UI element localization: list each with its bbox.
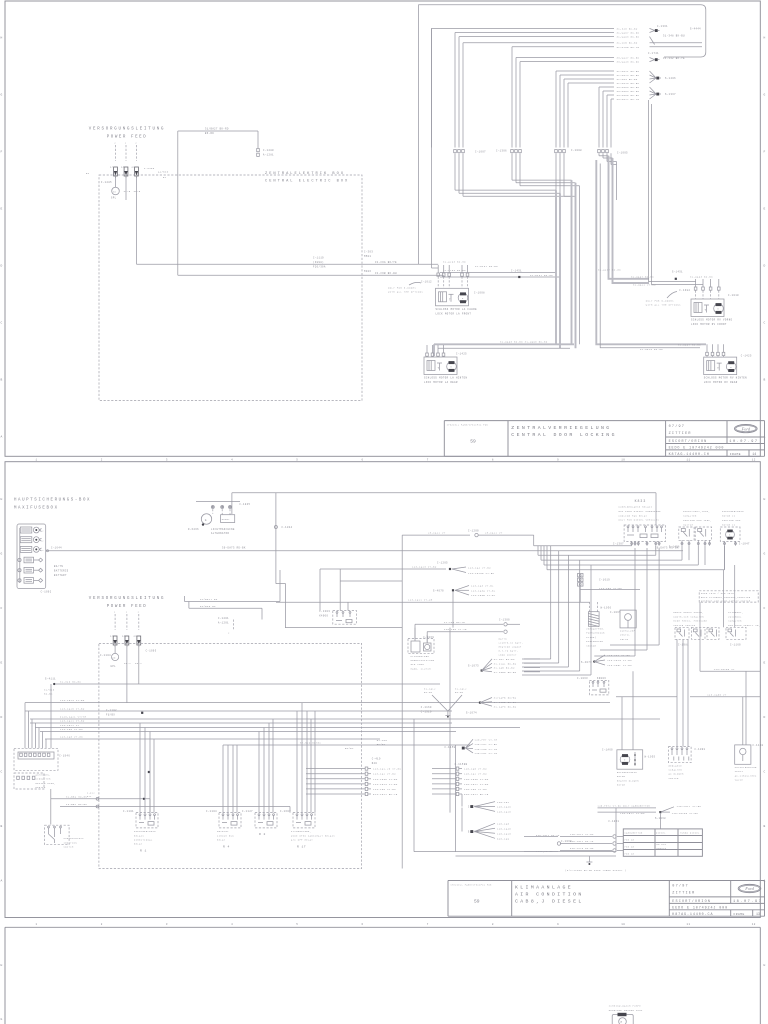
- svg-text:R40: R40: [372, 762, 378, 765]
- svg-text:PER KM: PER KM: [625, 839, 635, 842]
- svg-text:HEADLAMP WASHER PUMP: HEADLAMP WASHER PUMP: [609, 1009, 643, 1012]
- svg-text:E: E: [764, 662, 766, 665]
- svg-text:140-CA12 VT-BU: 140-CA12 VT-BU: [464, 783, 489, 786]
- svg-text:KUEHLGEBLAESE: KUEHLGEBLAESE: [134, 830, 156, 833]
- svg-text:MOTOR II: MOTOR II: [722, 515, 736, 518]
- svg-text:C-1644: C-1644: [51, 547, 62, 550]
- svg-text:31-WA67 BK-GN: 31-WA67 BK-GN: [617, 32, 640, 35]
- svg-text:BK-BU: BK-BU: [424, 691, 433, 694]
- svg-text:31-CAF8 BK-BU: 31-CAF8 BK-BU: [494, 705, 517, 708]
- svg-text:Ford: Ford: [744, 886, 754, 891]
- svg-text:9: 9: [557, 458, 559, 461]
- svg-text:8: 8: [492, 458, 494, 461]
- svg-text:31-W160 BK-YE: 31-W160 BK-YE: [617, 46, 640, 49]
- svg-text:H: H: [764, 498, 766, 501]
- svg-text:31-WA97 BK-BN: 31-WA97 BK-BN: [678, 344, 701, 347]
- svg-text:2: 2: [135, 142, 137, 145]
- svg-text:R 1: R 1: [140, 850, 147, 853]
- svg-text:S-1367: S-1367: [665, 93, 676, 96]
- svg-text:C-1306: C-1306: [496, 150, 507, 153]
- svg-text:C-1946: C-1946: [59, 755, 70, 758]
- svg-text:WITH ALL THE OPTIONS: WITH ALL THE OPTIONS: [646, 304, 681, 307]
- svg-text:C-1451: C-1451: [511, 270, 522, 273]
- svg-text:33-WA63 BK-BN: 33-WA63 BK-BN: [617, 86, 640, 89]
- svg-text:ONLY FOR 5-DOORS: ONLY FOR 5-DOORS: [646, 300, 674, 303]
- svg-text:F: F: [764, 151, 766, 154]
- svg-text:31-A437 BK-GN: 31-A437 BK-GN: [530, 274, 553, 277]
- svg-text:M,T,TN BATT,: M,T,TN BATT,: [499, 650, 519, 653]
- svg-text:18.07.97: 18.07.97: [733, 900, 762, 904]
- svg-text:143-CA2 VT-BU: 143-CA2 VT-BU: [373, 773, 396, 776]
- svg-text:C-1160: C-1160: [753, 744, 764, 747]
- svg-text:DIESEL: DIESEL: [656, 832, 666, 835]
- svg-text:SCHLOSS MOTOR RV VORNE: SCHLOSS MOTOR RV VORNE: [691, 319, 733, 322]
- svg-text:ZUSCHODL: ZUSCHODL: [728, 615, 742, 618]
- svg-text:2: 2: [42, 530, 44, 533]
- svg-text:M: M: [717, 308, 719, 311]
- svg-text:31-342 BK-YE: 31-342 BK-YE: [663, 57, 685, 60]
- svg-text:140-CA2 VT-BU: 140-CA2 VT-BU: [464, 773, 487, 776]
- svg-text:MOTOR: MOTOR: [617, 775, 626, 778]
- svg-text:31/348: 31/348: [44, 689, 55, 692]
- svg-text:K9006: K9006: [597, 677, 606, 680]
- svg-text:SCHLOSS MOTOR LA HINTEN: SCHLOSS MOTOR LA HINTEN: [424, 377, 467, 380]
- svg-text:BA/TN: BA/TN: [54, 565, 63, 568]
- svg-text:RELAIS: RELAIS: [134, 834, 144, 837]
- svg-text:SWITCH: SWITCH: [64, 846, 74, 849]
- svg-text:C-419: C-419: [372, 758, 381, 761]
- svg-text:C-1065: C-1065: [610, 611, 621, 614]
- svg-text:DIRECTIONAL: DIRECTIONAL: [134, 839, 153, 842]
- svg-text:H: H: [764, 37, 766, 40]
- svg-text:T: T: [705, 309, 707, 312]
- svg-text:140-CA106 VT-BU: 140-CA106 VT-BU: [672, 812, 699, 815]
- svg-text:POWER FEED: POWER FEED: [107, 605, 148, 609]
- svg-text:BK/BX: BK/BX: [377, 743, 386, 746]
- svg-text:G: G: [764, 553, 766, 556]
- svg-text:30-2: 30-2: [124, 662, 131, 665]
- svg-text:F: F: [764, 607, 766, 610]
- svg-text:R 2: R 2: [259, 833, 266, 836]
- svg-text:2: 2: [138, 611, 140, 614]
- svg-text:33-WA27 BK-YE: 33-WA27 BK-YE: [617, 98, 640, 101]
- svg-text:SCHLOSS MOTOR RV HINTEN: SCHLOSS MOTOR RV HINTEN: [704, 377, 747, 380]
- svg-text:2: 2: [101, 923, 103, 926]
- svg-text:BK-BU: BK-BU: [455, 691, 464, 694]
- svg-text:KONTR,SCH SCHALTER: KONTR,SCH SCHALTER: [673, 615, 704, 618]
- svg-text:140-CA7 VT-BU: 140-CA7 VT-BU: [475, 743, 498, 746]
- svg-text:VENTIL: VENTIL: [620, 634, 630, 637]
- svg-text:143-CA7A VT-BU: 143-CA7A VT-BU: [607, 659, 632, 662]
- svg-text:2: 2: [125, 142, 127, 145]
- svg-text:140-CA5 VT-YE: 140-CA5 VT-YE: [475, 748, 498, 751]
- svg-text:KLIMAANL,: KLIMAANL,: [728, 611, 743, 614]
- svg-text:D-6266: D-6266: [188, 528, 199, 531]
- svg-text:MOTOR: MOTOR: [617, 784, 626, 787]
- svg-text:C-1981: C-1981: [678, 644, 689, 647]
- svg-text:143-CA3A VT-BL: 143-CA3A VT-BL: [471, 589, 496, 592]
- svg-text:MAGNETKUPPLUNG: MAGNETKUPPLUNG: [411, 659, 435, 662]
- svg-text:31-CKB BK-WH: 31-CKB BK-WH: [375, 272, 397, 275]
- svg-text:PER KM: PER KM: [625, 853, 635, 856]
- svg-text:SPEZIELL FAHR/SPECIFIC FOR: SPEZIELL FAHR/SPECIFIC FOR: [451, 883, 493, 886]
- svg-text:VERSORGUNGSLEITUNG: VERSORGUNGSLEITUNG: [89, 128, 166, 132]
- svg-text:KLIMA): KLIMA): [586, 636, 596, 639]
- svg-text:Ford: Ford: [740, 426, 750, 431]
- svg-text:A8: A8: [122, 635, 126, 638]
- svg-text:C-1051: C-1051: [608, 820, 619, 823]
- svg-text:5: 5: [296, 923, 298, 926]
- svg-text:33-WA47 BK-BN: 33-WA47 BK-BN: [617, 57, 640, 60]
- svg-text:59: 59: [470, 439, 476, 445]
- svg-text:CARBURETTOR: CARBURETTOR: [625, 832, 644, 835]
- svg-text:AUX FUER DIESEL FAHRZEUGE: AUX FUER DIESEL FAHRZEUGE: [619, 510, 662, 513]
- svg-text:31-C1AL BK-BU: 31-C1AL BK-BU: [494, 662, 517, 665]
- svg-text:HIGH PRESS, PRESSURE: HIGH PRESS, PRESSURE: [673, 620, 707, 623]
- svg-text:EEDO E 1074924J 000: EEDO E 1074924J 000: [672, 906, 728, 910]
- svg-text:UMLUFTREGLUNG: UMLUFTREGLUNG: [735, 766, 757, 769]
- svg-text:S-4444: S-4444: [690, 28, 701, 31]
- svg-text:12: 12: [752, 923, 756, 926]
- svg-text:SCHALTER: SCHALTER: [669, 769, 683, 772]
- svg-text:FUER 16TA / FOR 16TA: FUER 16TA / FOR 16TA: [701, 592, 734, 595]
- svg-text:B2: B2: [163, 176, 167, 179]
- svg-text:C-1002: C-1002: [41, 591, 52, 594]
- svg-text:SIGNALTER: SIGNALTER: [36, 778, 52, 781]
- svg-text:ESCORT/ORION: ESCORT/ORION: [669, 439, 708, 444]
- svg-text:2: 2: [114, 611, 116, 614]
- svg-text:143-CA1,20 VT-BU: 143-CA1,20 VT-BU: [373, 768, 401, 771]
- svg-text:HAUPTSICHERUNGS-BOX: HAUPTSICHERUNGS-BOX: [14, 499, 91, 503]
- svg-text:AC BLOWER: AC BLOWER: [669, 773, 685, 776]
- svg-text:13: 13: [756, 912, 760, 916]
- svg-text:SCHALTER: SCHALTER: [683, 515, 697, 518]
- svg-text:BATTERY: BATTERY: [54, 574, 67, 577]
- svg-text:FRAME: FRAME: [730, 453, 741, 456]
- svg-text:31-CKB BK-BN: 31-CKB BK-BN: [617, 42, 638, 45]
- svg-text:HEATING LOADUP: HEATING LOADUP: [499, 646, 522, 649]
- svg-text:C-1169: C-1169: [421, 706, 432, 709]
- svg-text:AIR COND: AIR COND: [411, 663, 425, 666]
- svg-text:F20/30A: F20/30A: [313, 266, 326, 269]
- svg-text:C-1159B: C-1159B: [455, 763, 468, 766]
- svg-text:C-1045: C-1045: [239, 503, 250, 506]
- svg-text:140-CA28: 140-CA28: [497, 811, 511, 814]
- svg-text:B: B: [764, 379, 766, 382]
- svg-text:C-1303: C-1303: [319, 610, 330, 613]
- svg-text:143-CA23 VT-BU: 143-CA23 VT-BU: [60, 699, 85, 702]
- svg-text:R13-CA11 BK-YE: R13-CA11 BK-YE: [373, 793, 398, 796]
- svg-text:C-1160: C-1160: [730, 644, 741, 647]
- svg-text:RY-RXD: RY-RXD: [377, 739, 388, 742]
- svg-text:31/CAFB BK/BU: 31/CAFB BK/BU: [494, 697, 517, 700]
- svg-text:33-WA64 BK-GN: 33-WA64 BK-GN: [617, 90, 640, 93]
- svg-text:31-A437 BK-BN: 31-A437 BK-BN: [475, 265, 498, 268]
- svg-text:(3898): (3898): [313, 261, 324, 264]
- svg-text:31-WA21 BK-BN: 31-WA21 BK-BN: [617, 70, 640, 73]
- svg-text:A-1281: A-1281: [263, 154, 274, 157]
- svg-text:R 4: R 4: [223, 846, 230, 849]
- svg-text:7: 7: [427, 923, 429, 926]
- svg-text:SWITCH SWITCH: SWITCH SWITCH: [673, 624, 695, 627]
- svg-text:C-1104: C-1104: [206, 810, 217, 813]
- svg-text:31/BA27 BK: 31/BA27 BK: [200, 598, 218, 601]
- svg-text:31-CAL2: 31-CAL2: [455, 687, 467, 690]
- svg-text:GPL: GPL: [111, 196, 117, 199]
- svg-text:12: 12: [752, 458, 756, 461]
- svg-text:BK-RD: BK-RD: [205, 132, 214, 135]
- svg-text:640-CA12 BK-YE: 640-CA12 BK-YE: [570, 840, 594, 843]
- svg-text:S-1451: S-1451: [672, 270, 683, 273]
- svg-text:143-CA25 VT-BU: 143-CA25 VT-BU: [60, 707, 85, 710]
- svg-text:C-1047: C-1047: [739, 542, 750, 545]
- svg-text:C-1280: C-1280: [263, 149, 274, 152]
- svg-text:M: M: [450, 366, 452, 369]
- svg-text:143-CA6 VT-BU: 143-CA6 VT-BU: [60, 728, 83, 731]
- svg-text:ZENTRALELEKTRIK BOX: ZENTRALELEKTRIK BOX: [265, 172, 345, 176]
- svg-text:RELAY: RELAY: [217, 839, 226, 842]
- svg-text:C-1607: C-1607: [280, 810, 291, 813]
- svg-text:RD-BK: RD-BK: [44, 693, 53, 696]
- svg-text:A7: A7: [110, 166, 114, 169]
- svg-text:C-1010: C-1010: [728, 294, 739, 297]
- svg-text:(143-CA21 VT/YE: (143-CA21 VT/YE: [60, 715, 87, 718]
- svg-text:2: 2: [126, 611, 128, 614]
- svg-text:640-CA9: 640-CA9: [497, 838, 510, 841]
- svg-text:143-CA5L VT-BU: 143-CA5L VT-BU: [607, 664, 632, 667]
- svg-text:3: 3: [166, 923, 168, 926]
- svg-text:140-CA46: 140-CA46: [497, 806, 511, 809]
- svg-text:31-WA24 BK-BU: 31-WA24 BK-BU: [617, 74, 640, 77]
- svg-text:S-1406: S-1406: [665, 77, 676, 80]
- svg-text:31-A293 BK-RD: 31-A293 BK-RD: [443, 261, 466, 264]
- svg-text:31-WA93 BK-BN: 31-WA93 BK-BN: [690, 276, 713, 279]
- svg-text:S-1073: S-1073: [468, 664, 479, 667]
- svg-text:IGNITION: IGNITION: [64, 841, 78, 844]
- svg-text:ZITTIER: ZITTIER: [669, 432, 692, 436]
- svg-text:CIRCUM RUN: CIRCUM RUN: [217, 834, 234, 837]
- svg-text:M: M: [462, 297, 464, 300]
- svg-text:VERDAMPFER-: VERDAMPFER-: [586, 628, 605, 631]
- svg-text:NO ESC: NO ESC: [657, 843, 667, 846]
- svg-text:143-CA11 VT-WH: 143-CA11 VT-WH: [408, 599, 433, 602]
- svg-text:ZUENDSCHLOSS: ZUENDSCHLOSS: [64, 837, 85, 840]
- svg-text:REGUL: REGUL: [222, 518, 231, 521]
- svg-text:1: 1: [35, 923, 37, 926]
- svg-text:C-1005: C-1005: [617, 152, 628, 155]
- svg-text:S-4073: S-4073: [581, 661, 592, 664]
- svg-text:G: G: [1, 94, 3, 97]
- svg-text:41-CA6 BK-YE: 41-CA6 BK-YE: [444, 621, 465, 624]
- svg-text:31-WA3 BK-BN: 31-WA3 BK-BN: [617, 78, 638, 81]
- svg-text:WITH ALL THE OPTIONS: WITH ALL THE OPTIONS: [388, 291, 423, 294]
- svg-text:D: D: [764, 265, 766, 268]
- svg-text:C: C: [764, 322, 766, 325]
- svg-text:D: D: [1, 716, 3, 719]
- svg-text:WIDE OPEN (ABSCHALT RELAIS: WIDE OPEN (ABSCHALT RELAIS: [291, 834, 335, 837]
- svg-text:T: T: [449, 298, 451, 301]
- svg-text:C-1425: C-1425: [456, 353, 467, 356]
- svg-text:33-WA65 BK-BU: 33-WA65 BK-BU: [617, 94, 640, 97]
- svg-text:A8: A8: [121, 166, 125, 169]
- svg-text:C-1063: C-1063: [577, 677, 588, 680]
- svg-text:EEDO E 10749242 000: EEDO E 10749242 000: [669, 446, 725, 450]
- svg-text:BA/TN: BA/TN: [499, 638, 508, 641]
- svg-text:BEIM KLIMAANL,VERSORG,SCHALTER: BEIM KLIMAANL,VERSORG,SCHALTER: [701, 596, 751, 599]
- svg-text:A9: A9: [134, 635, 138, 638]
- svg-text:59: 59: [474, 899, 480, 905]
- svg-text:143-CA3B VT-BL: 143-CA3B VT-BL: [471, 594, 496, 597]
- svg-text:CAB8,J DIESEL: CAB8,J DIESEL: [515, 899, 584, 905]
- svg-text:143-CA6 VT-BU: 143-CA6 VT-BU: [373, 788, 396, 791]
- svg-text:2: 2: [42, 549, 44, 552]
- svg-text:30: 30: [112, 656, 116, 659]
- svg-text:WITHOUT AIR COND,SAFETY SWITCH: WITHOUT AIR COND,SAFETY SWITCH: [701, 599, 751, 602]
- svg-text:C-1319: C-1319: [421, 711, 432, 714]
- svg-text:C-1741: C-1741: [648, 52, 659, 55]
- svg-text:S-4111: S-4111: [45, 677, 56, 680]
- svg-text:31-CABD BK-BU: 31-CABD BK-BU: [494, 671, 517, 674]
- svg-text:H: H: [1, 498, 3, 501]
- svg-text:140-CA8: 140-CA8: [497, 823, 510, 826]
- svg-text:2: 2: [114, 142, 116, 145]
- svg-text:C-1069: C-1069: [423, 636, 434, 639]
- svg-text:A: A: [1, 880, 3, 883]
- svg-text:LOCK MOTOR LA REAR: LOCK MOTOR LA REAR: [424, 381, 458, 384]
- svg-text:143-CA4 VT-BU: 143-CA4 VT-BU: [468, 567, 491, 570]
- svg-text:B: B: [1, 379, 3, 382]
- svg-text:11: 11: [686, 458, 690, 461]
- svg-text:C: C: [764, 771, 766, 774]
- svg-text:LICHTM,SS BATT,: LICHTM,SS BATT,: [499, 642, 524, 645]
- svg-text:A-1201: A-1201: [218, 621, 229, 624]
- svg-text:31-WA97 BK-BN: 31-WA97 BK-BN: [631, 276, 654, 279]
- svg-text:143-CA13 VT-BU: 143-CA13 VT-BU: [373, 783, 398, 786]
- svg-text:143-CA85 VT: 143-CA85 VT: [707, 694, 727, 697]
- svg-text:6: 6: [361, 458, 363, 461]
- svg-text:143-CA38 VT-BU: 143-CA38 VT-BU: [373, 778, 398, 781]
- svg-text:FUEHLER(NUR: FUEHLER(NUR: [586, 632, 605, 635]
- svg-text:F: F: [1, 151, 3, 154]
- svg-text:07/97: 07/97: [669, 424, 686, 429]
- svg-text:30-B: 30-B: [124, 190, 131, 193]
- svg-text:143-CA106 VT: 143-CA106 VT: [714, 668, 735, 671]
- svg-text:MOTOR II: MOTOR II: [722, 523, 736, 526]
- svg-text:W-1036: W-1036: [601, 607, 612, 610]
- svg-text:30: 30: [113, 190, 117, 193]
- svg-text:140-CA48: 140-CA48: [497, 828, 511, 831]
- svg-text:C-1069: C-1069: [561, 840, 572, 843]
- svg-text:C-1101: C-1101: [123, 810, 134, 813]
- svg-text:C-1044: C-1044: [282, 526, 293, 529]
- svg-text:C-1119: C-1119: [313, 257, 324, 260]
- svg-text:C-1425: C-1425: [741, 355, 752, 358]
- svg-text:A4/B60: A4/B60: [158, 171, 169, 174]
- svg-text:11: 11: [686, 923, 690, 926]
- svg-text:2: 2: [101, 458, 103, 461]
- svg-text:C-1159: C-1159: [445, 746, 456, 749]
- svg-text:VALVE: VALVE: [735, 779, 744, 782]
- svg-text:(M/S-SPEED BK-WH FUER TURBO DI: (M/S-SPEED BK-WH FUER TURBO DIESEL ): [565, 869, 626, 872]
- svg-text:G: G: [1, 553, 3, 556]
- svg-text:4: 4: [231, 923, 233, 926]
- svg-text:VERSORGUNGSLEITUNG: VERSORGUNGSLEITUNG: [89, 597, 166, 601]
- svg-text:31-CAB BK-BU: 31-CAB BK-BU: [494, 667, 515, 670]
- svg-text:M: M: [730, 366, 732, 369]
- svg-text:RELAY: RELAY: [134, 843, 143, 846]
- svg-text:SWITCH: SWITCH: [683, 523, 693, 526]
- svg-text:DRUCK DRUCK KONTR,: DRUCK DRUCK KONTR,: [673, 611, 704, 614]
- svg-text:C-1003: C-1003: [146, 650, 157, 653]
- svg-text:ZITTIER: ZITTIER: [672, 892, 695, 896]
- svg-text:143-CA3 VT-BL: 143-CA3 VT-BL: [471, 585, 494, 588]
- svg-text:F-1285: F-1285: [101, 181, 112, 184]
- svg-text:31-A437 BK-GN: 31-A437 BK-GN: [598, 269, 621, 272]
- svg-text:KLIMAANLAGE: KLIMAANLAGE: [515, 885, 573, 891]
- svg-text:PER KM: PER KM: [625, 846, 635, 849]
- svg-text:D: D: [764, 716, 766, 719]
- svg-text:C-1127: C-1127: [242, 810, 253, 813]
- svg-text:A: A: [1, 436, 3, 439]
- svg-text:07/97: 07/97: [672, 884, 689, 889]
- svg-text:S-4070: S-4070: [433, 589, 444, 592]
- svg-text:F: F: [1, 607, 3, 610]
- svg-text:SENSOR: SENSOR: [586, 644, 596, 647]
- svg-text:H: H: [1, 964, 3, 967]
- svg-text:BK/BX: BK/BX: [345, 747, 354, 750]
- svg-text:CENTRAL ELECTRIC BOX: CENTRAL ELECTRIC BOX: [265, 180, 349, 184]
- svg-text:FU/BX: FU/BX: [106, 714, 115, 717]
- svg-text:A9: A9: [132, 166, 136, 169]
- svg-text:143-CA25A VT-BU: 143-CA25A VT-BU: [468, 572, 495, 575]
- svg-text:31-346 BK-BU: 31-346 BK-BU: [60, 680, 81, 683]
- svg-text:10: 10: [621, 458, 625, 461]
- svg-text:HEATER: HEATER: [36, 786, 46, 789]
- svg-text:K833: K833: [635, 499, 647, 503]
- svg-text:LBOW CONTCT: LBOW CONTCT: [499, 654, 518, 657]
- svg-text:6: 6: [361, 923, 363, 926]
- svg-text:S-1074: S-1074: [466, 712, 477, 715]
- svg-text:140-PET VT-YE: 140-PET VT-YE: [475, 739, 498, 742]
- svg-text:M501: M501: [364, 255, 371, 258]
- svg-text:FRAME: FRAME: [734, 913, 745, 916]
- svg-text:3: 3: [166, 458, 168, 461]
- svg-text:B: B: [1, 825, 3, 828]
- svg-text:31-PET BK-BU: 31-PET BK-BU: [494, 658, 515, 661]
- svg-text:10.07.97: 10.07.97: [729, 440, 758, 444]
- svg-text:2: 2: [228, 632, 230, 635]
- svg-text:H: H: [764, 964, 766, 967]
- svg-text:G: G: [205, 519, 207, 522]
- svg-text:AIR COND,SAFETY SW,: AIR COND,SAFETY SW,: [728, 624, 760, 627]
- svg-text:W-1055: W-1055: [645, 756, 656, 759]
- svg-text:COOLING FAN: COOLING FAN: [722, 519, 741, 522]
- svg-text:ZENTRALVERRIEGELUNG: ZENTRALVERRIEGELUNG: [511, 425, 611, 431]
- svg-text:MHYRLAY: MHYRLAY: [217, 830, 229, 833]
- svg-text:31-348 BK-BU: 31-348 BK-BU: [617, 27, 638, 30]
- svg-text:C-1382: C-1382: [679, 289, 690, 292]
- svg-text:143-CA23 VT-BU: 143-CA23 VT-BU: [412, 565, 437, 568]
- svg-text:9: 9: [557, 923, 559, 926]
- svg-text:140-CA38 VT-BU: 140-CA38 VT-BU: [464, 778, 489, 781]
- svg-text:LH-CA22 VT: LH-CA22 VT: [428, 532, 446, 535]
- svg-text:KLIMAANLAGE,: KLIMAANLAGE,: [291, 830, 311, 833]
- svg-text:TURBO DIESEL: TURBO DIESEL: [680, 832, 700, 835]
- svg-text:ANTENNEN,: ANTENNEN,: [36, 773, 51, 776]
- svg-text:GPL: GPL: [111, 665, 117, 668]
- svg-text:31-WA93 BK-BN: 31-WA93 BK-BN: [617, 36, 640, 39]
- svg-text:C-303: C-303: [364, 251, 373, 254]
